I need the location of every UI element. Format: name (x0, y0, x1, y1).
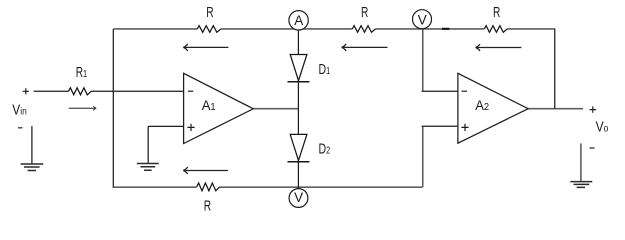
svg-text:R: R (206, 4, 213, 20)
svg-text:R: R (493, 4, 500, 20)
svg-text:Vo: Vo (596, 118, 609, 135)
svg-text:R1: R1 (76, 64, 87, 80)
svg-text:R: R (361, 4, 368, 20)
svg-text:V: V (418, 13, 427, 28)
svg-text:V: V (294, 190, 303, 205)
svg-text:A: A (294, 13, 303, 28)
svg-text:R: R (204, 198, 211, 214)
svg-text:D1: D1 (319, 60, 331, 77)
svg-text:D2: D2 (319, 139, 331, 156)
svg-text:Vin: Vin (12, 101, 27, 118)
